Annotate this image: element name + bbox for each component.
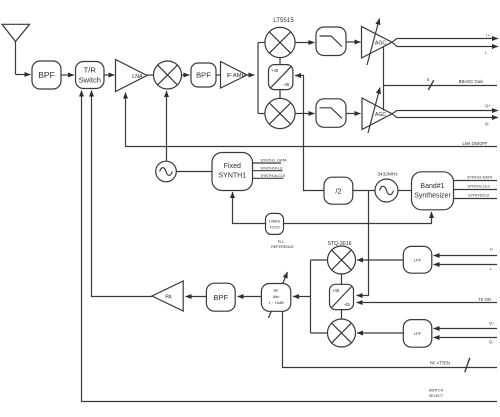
svg-text:Q-: Q-: [485, 121, 490, 126]
wire phase shifter to mixer M2: [279, 58, 281, 65]
wire mixer M2 to LPF1: [295, 42, 314, 44]
svg-text:LNA: LNA: [132, 74, 143, 80]
wire LPF4 to mixer M5: [357, 332, 403, 334]
bus width slash on RF ATTEN: [465, 358, 470, 373]
wire BPF3 to PA: [186, 296, 207, 298]
low-pass filter LPF2: [316, 99, 346, 128]
Band#1 Synthesizer U4: [412, 172, 454, 210]
svg-text:Synthesizer: Synthesizer: [414, 193, 451, 200]
svg-text:RF: RF: [273, 289, 279, 293]
antenna: [2, 24, 30, 74]
svg-text:SYNTH2-LE2: SYNTH2-LE2: [467, 185, 489, 189]
wire I+ input: [434, 255, 498, 257]
wire SYNTH2-CLK: [454, 198, 498, 200]
svg-text:SYNTH1#-CLK: SYNTH1#-CLK: [260, 174, 286, 178]
mixer M4 (I modulator): [328, 246, 356, 274]
T/R switch U1: [76, 62, 105, 89]
svg-text:I+: I+: [486, 33, 490, 38]
AGC amplifier A2: [362, 88, 392, 134]
svg-text:-45: -45: [344, 302, 351, 307]
svg-text:TX ON: TX ON: [478, 297, 491, 302]
wire oscillator X1 to Fixed SYNTH1: [176, 171, 212, 173]
band-pass filter BPF1 (RX front end): [32, 61, 61, 89]
node: TX combiner bus: [310, 260, 312, 333]
IF amplifier: [221, 62, 248, 89]
svg-text:+45: +45: [332, 288, 340, 293]
wire mixer M1 to BPF2: [182, 74, 190, 76]
wire LPF2 to AGC A2: [346, 113, 361, 115]
10MHz TCXO reference X2: [266, 213, 284, 234]
wire TX bus to RF attenuator: [293, 296, 311, 298]
PA power amplifier: [152, 281, 183, 311]
wire SYNTH2-LE2: [454, 189, 498, 191]
svg-text:SYNTH2CLK: SYNTH2CLK: [468, 194, 490, 198]
svg-text:Switch: Switch: [79, 76, 101, 85]
wire LNA ON/OFF control: [126, 93, 498, 147]
svg-text:Q+: Q+: [485, 103, 491, 108]
svg-text:SYNTH2-DATA: SYNTH2-DATA: [467, 176, 493, 180]
wire TX ON control: [357, 302, 498, 304]
wire BBAGC Gain: [384, 85, 498, 87]
svg-text:1 ~ 15dB: 1 ~ 15dB: [268, 301, 284, 305]
svg-text:SYNTH1#-LE: SYNTH1#-LE: [260, 167, 283, 171]
svg-text:/2: /2: [335, 186, 341, 195]
Fixed SYNTH1 synthesizer U2: [212, 153, 253, 191]
wire bus to mixer M3: [258, 113, 265, 115]
wire Q+ output: [392, 111, 498, 114]
wire IF amp to quadrature splitter bus: [247, 74, 255, 76]
svg-text:3432MHz: 3432MHz: [377, 171, 398, 177]
oscillator X1 (1st LO): [156, 161, 177, 182]
svg-text:SYNTH1- DATA: SYNTH1- DATA: [260, 159, 287, 163]
wire SYNTH1-CLK stub: [253, 177, 284, 179]
wire Q- input: [434, 337, 498, 339]
svg-text:LT5515: LT5515: [273, 17, 294, 24]
divider /2 U3: [324, 177, 353, 204]
svg-text:BPF: BPF: [196, 71, 211, 80]
svg-text:Fixed: Fixed: [224, 163, 241, 170]
wire Q- output: [392, 114, 498, 118]
wire LPF1 to AGC A1: [346, 41, 361, 43]
svg-text:I-: I-: [490, 266, 493, 271]
svg-text:AGC: AGC: [375, 112, 386, 118]
wire 2nd LO feed to TX phase shifter: [357, 191, 369, 296]
RF attenuator (1~15dB variable): [261, 272, 290, 318]
svg-text:LPF: LPF: [414, 331, 422, 336]
low-pass filter LPF3 (I baseband): [403, 246, 432, 273]
svg-text:-45: -45: [283, 82, 290, 87]
svg-text:REFERENCE: REFERENCE: [271, 245, 294, 249]
wire antenna to BPF1: [16, 74, 31, 76]
wire SYNTH1-LE stub: [253, 170, 283, 172]
svg-text:PA: PA: [165, 294, 172, 300]
svg-text:AGC: AGC: [375, 40, 386, 46]
svg-text:Q+: Q+: [489, 321, 495, 326]
low-pass filter LPF4 (Q baseband): [403, 320, 432, 348]
svg-text:TCXO: TCXO: [269, 226, 279, 230]
LNA amplifier: [116, 60, 148, 92]
wire oscillator X1 to mixer M1 (LO port): [166, 91, 168, 161]
svg-text:10MHz: 10MHz: [269, 220, 281, 224]
wire LPF3 to mixer M4: [357, 259, 403, 261]
wire TX phase shifter to mixer M5: [341, 310, 343, 319]
wire SWITCH SELECT control: [82, 91, 498, 402]
svg-text:LPF: LPF: [414, 258, 422, 263]
wire SYNTH1-DATA stub: [253, 162, 282, 164]
wire oscillator X3 to Band#1 synthesizer: [398, 190, 412, 192]
low-pass filter LPF1: [316, 27, 346, 56]
wire I- output: [392, 42, 498, 46]
wire RF ATTEN control: [283, 311, 498, 367]
mixer M3 (Q demodulator): [265, 98, 295, 128]
svg-text:I-: I-: [485, 50, 488, 55]
svg-text:BPF: BPF: [213, 293, 228, 302]
wire TCXO to Fixed SYNTH1: [233, 192, 266, 224]
svg-text:BBAGC Gain: BBAGC Gain: [459, 79, 484, 84]
wire I- input: [434, 264, 498, 266]
phase shifter +45/-45 (RX quadrature LO): [269, 65, 293, 90]
wire /2 to oscillator X3: [353, 190, 375, 192]
band-pass filter BPF2 (IF filter): [191, 63, 216, 87]
wire I+ output: [392, 39, 498, 43]
svg-text:Attn: Attn: [273, 295, 280, 299]
svg-text:Q-: Q-: [489, 339, 494, 344]
wire T/R switch to LNA: [104, 74, 115, 76]
wire PA to T/R switch: [92, 91, 153, 297]
wire BPF2 to IF amp: [216, 74, 221, 76]
svg-text:PLL: PLL: [278, 240, 285, 244]
band-pass filter BPF3 (TX): [206, 283, 235, 311]
wire 1st LO feed to RX phase shifter: [295, 76, 324, 191]
AGC amplifier A1: [362, 19, 393, 66]
wire bus to mixer M2: [258, 42, 265, 44]
mixer M1 (first downconverter): [154, 61, 182, 89]
phase shifter +45/-45 (TX quadrature LO): [330, 284, 354, 309]
bus width slash on BBAGC Gain: [428, 80, 434, 90]
svg-text:4: 4: [427, 77, 430, 82]
wire Q+ input: [434, 328, 498, 330]
svg-text:SWITCH: SWITCH: [429, 389, 444, 393]
svg-text:SELECT: SELECT: [429, 394, 444, 398]
svg-text:BPF: BPF: [38, 70, 55, 80]
svg-text:LNA ON/OFF: LNA ON/OFF: [463, 141, 488, 146]
wire BPF1 to T/R switch: [61, 74, 74, 76]
svg-text:+45: +45: [271, 68, 279, 73]
wire mixer M3 to LPF2: [295, 113, 314, 115]
mixer M5 (Q modulator): [328, 319, 356, 347]
svg-text:T/R: T/R: [84, 66, 97, 75]
mixer M2 (I demodulator): [265, 27, 295, 57]
wire phase shifter to mixer M3: [279, 90, 281, 99]
oscillator X3 (3432MHz VCO): [375, 179, 398, 202]
svg-text:SYNTH1: SYNTH1: [218, 173, 246, 180]
wire mixer M5 to TX bus: [311, 332, 328, 334]
svg-text:I+: I+: [490, 246, 494, 251]
wire TX phase shifter to mixer M4: [341, 274, 343, 284]
wire mixer M4 to TX bus: [311, 259, 328, 261]
wire LNA to mixer M1: [147, 74, 154, 76]
wire TCXO to Band#1 synthesizer: [284, 212, 432, 224]
wire SYNTH2-DATA: [454, 180, 498, 182]
svg-text:Band#1: Band#1: [420, 183, 444, 190]
svg-text:IF AMP: IF AMP: [226, 73, 245, 79]
node: AGC gain bus vertical: [383, 47, 385, 111]
node: IF splitter bus: [257, 43, 259, 114]
wire RF attenuator to BPF3: [238, 296, 262, 298]
svg-text:RF ATTEN: RF ATTEN: [430, 360, 450, 365]
